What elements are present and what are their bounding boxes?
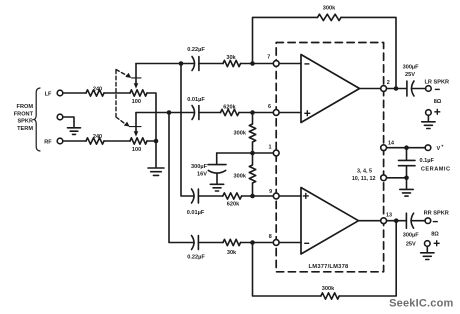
svg-text:8: 8 (269, 234, 272, 240)
pin 8 circle (273, 240, 279, 246)
pin 6 circle (273, 110, 279, 116)
svg-text:240: 240 (93, 134, 102, 140)
resistor 30k (lower) (223, 239, 241, 245)
svg-text:240: 240 (93, 86, 102, 92)
junction amp1 noninverting node (250, 110, 255, 115)
wire RR plus to ground (426, 247, 428, 252)
svg-text:LM377/LM378: LM377/LM378 (309, 264, 349, 270)
svg-text:620k: 620k (227, 202, 240, 208)
capacitor 0.01uF (C4 lower) (192, 189, 199, 203)
node RF input terminal (57, 138, 63, 144)
svg-text:0.22µF: 0.22µF (187, 255, 205, 261)
junction pot grounds (154, 139, 159, 144)
node RR SPKR minus terminal (425, 218, 431, 224)
wire C2 to R620k mid (199, 112, 221, 114)
svg-text:0.22µF: 0.22µF (187, 47, 205, 53)
wire C4 to R620k lower (198, 195, 222, 197)
ground RR speaker (421, 253, 434, 260)
svg-text:30k: 30k (226, 55, 236, 61)
wire node B to C2 (169, 112, 194, 114)
node A junction (LF wiper node) (179, 61, 184, 66)
label minus LR (435, 88, 440, 90)
svg-text:300µF: 300µF (191, 164, 208, 170)
svg-text:100: 100 (132, 147, 141, 153)
pot P1 wiper arrow (135, 64, 137, 85)
svg-text:RF: RF (44, 139, 52, 145)
capacitor 0.22uF (C5 lower) (192, 236, 199, 250)
wire pin 13 to output cap C7 (387, 220, 407, 222)
wire bias node to pin 1 and bypass cap (217, 152, 273, 154)
pin 2 circle (381, 86, 387, 92)
wire RF terminal to R240b (63, 140, 86, 142)
label plus LR (434, 109, 440, 115)
capacitor 300uF 16V (bypass) (208, 153, 226, 173)
junction RR output node (394, 218, 399, 223)
wire LF terminal to R240a (63, 92, 86, 94)
wire ceramic cap to ground (406, 178, 408, 188)
wire pin 14 to V+ terminal (387, 147, 425, 149)
svg-text:300k: 300k (323, 6, 336, 12)
svg-text:13: 13 (386, 212, 392, 218)
svg-text:CERAMIC: CERAMIC (421, 167, 451, 173)
svg-text:16V: 16V (197, 172, 207, 178)
svg-text:25V: 25V (405, 72, 415, 78)
wire R620k to pin 6 (239, 112, 273, 114)
svg-text:300k: 300k (322, 286, 335, 292)
pin 9 circle (273, 193, 279, 199)
ground pots (148, 168, 164, 175)
svg-text:620k: 620k (223, 105, 236, 111)
wire P2 right end to junction (147, 140, 156, 142)
node RR SPKR plus terminal (425, 241, 431, 247)
svg-text:300k: 300k (234, 131, 247, 137)
op-amp U1B plus sign (303, 193, 309, 199)
wire pin 2 to output cap C6 (387, 88, 407, 90)
wire pin 6 to amp1 (279, 112, 301, 114)
resistor 300k (bias lower) vertical (249, 153, 255, 196)
wire C5 to R30k lower (198, 242, 223, 244)
resistor 30k (top) (223, 60, 241, 66)
resistor 620k (lower) (223, 193, 242, 199)
wire amp2 output to pin 13 (359, 220, 381, 222)
gang link dashed (dual pot coupling) (116, 70, 128, 125)
wire pin 8 to amp2 (279, 242, 301, 244)
svg-text:FROM: FROM (17, 104, 34, 110)
junction LR output node (394, 86, 399, 91)
potentiometer 100 (P1 element) (130, 90, 147, 96)
svg-text:1: 1 (269, 145, 272, 151)
wire C7 to RR speaker terminal (411, 220, 425, 222)
svg-text:8Ω: 8Ω (434, 99, 442, 105)
resistor 300k (bottom feedback) (321, 293, 339, 299)
svg-text:LR SPKR: LR SPKR (425, 80, 450, 86)
capacitor 0.22uF (C1 top) (192, 57, 199, 71)
svg-text:0.01µF: 0.01µF (187, 210, 205, 216)
pin 14 circle (381, 145, 387, 151)
svg-text:SPKR: SPKR (17, 119, 33, 125)
label plus RR (434, 240, 440, 246)
svg-text:3, 4, 5: 3, 4, 5 (357, 169, 372, 175)
svg-text:300µF: 300µF (403, 233, 420, 239)
wire R30k to pin 7 (241, 63, 274, 65)
svg-text:6: 6 (268, 104, 271, 110)
node LF input terminal (57, 90, 63, 96)
wire LR plus to ground (427, 116, 429, 121)
wire R30k lower to pin 8 (241, 242, 274, 244)
pin 1 circle (273, 150, 279, 156)
ground bypass (210, 184, 223, 191)
ground LR speaker (422, 122, 435, 129)
node common input terminal (57, 114, 63, 120)
label minus RR (433, 221, 438, 223)
wire C1 to R30k top (199, 63, 223, 65)
op-amp U1A plus sign (304, 110, 310, 116)
svg-text:V: V (437, 146, 441, 152)
svg-text:100: 100 (132, 99, 141, 105)
brace input group (34, 88, 40, 151)
node LR SPKR minus terminal (426, 86, 432, 92)
svg-text:SeekIC.com: SeekIC.com (389, 298, 453, 310)
wire amp1 output to pin 2 (360, 88, 381, 90)
pot P2 wiper arrow (135, 113, 137, 133)
wire R240a to pot P1 (104, 92, 130, 94)
wire R620k lower to pin 9 (242, 195, 273, 197)
pins 3,4,5,10,11,12 circle (381, 175, 387, 181)
op-amp U1B triangle (301, 188, 359, 255)
svg-text:0.01µF: 0.01µF (187, 97, 205, 103)
wire node B down to lower channel (169, 113, 194, 243)
resistor 240 (right front) (86, 138, 104, 144)
svg-text:LF: LF (45, 92, 52, 98)
capacitor 300uF 25V (LR coupling) (407, 81, 414, 96)
svg-text:7: 7 (267, 54, 270, 60)
wire pin 7 to amp1 (279, 63, 301, 65)
junction amp2 inverting node (250, 240, 255, 245)
svg-text:10, 11, 12: 10, 11, 12 (352, 176, 376, 182)
wire P1 right end to ground column (147, 93, 156, 141)
svg-text:+: + (441, 144, 444, 149)
pin 7 circle (273, 61, 279, 67)
svg-text:9: 9 (269, 189, 272, 195)
ground supply bypass (400, 189, 413, 196)
gang wiper tick P2 (130, 126, 142, 128)
gang wiper tick P1 (132, 77, 142, 79)
junction amp1 inverting node (250, 61, 255, 66)
svg-text:2: 2 (387, 80, 390, 86)
wire common terminal to ground (63, 117, 74, 127)
resistor 620k (upper) (221, 109, 239, 115)
junction V+ node (404, 145, 409, 150)
wire feedback2 down and over (253, 221, 397, 296)
junction ground pins node (404, 176, 409, 181)
wire R240b to pot P2 (104, 140, 130, 142)
pin 13 circle (381, 218, 387, 224)
capacitor 0.1uF ceramic (399, 148, 416, 178)
svg-text:FRONT: FRONT (14, 111, 34, 117)
resistor 300k (bias upper) vertical (249, 113, 255, 154)
wire P2 wiper to node B (136, 112, 169, 114)
wire node A to C1 (181, 63, 194, 65)
ground input common (68, 128, 81, 135)
wire feedback1 up and over (253, 17, 397, 88)
svg-text:30k: 30k (227, 250, 237, 256)
wire junction to ground (155, 141, 157, 167)
IC dashed package outline LM377/LM378 (276, 43, 383, 272)
wire node A down to lower channel (181, 64, 194, 197)
svg-text:0.1µF: 0.1µF (420, 158, 435, 164)
node B junction (RF wiper node) (167, 110, 172, 115)
potentiometer 100 (P2 element) (130, 138, 147, 144)
capacitor 300uF 25V (RR coupling) (406, 213, 413, 228)
op-amp U1B minus sign (304, 242, 309, 244)
wire C6 to LR speaker terminal (412, 88, 426, 90)
wire ground pins 3-12 (387, 177, 407, 179)
svg-text:25V: 25V (406, 242, 416, 248)
wire P1 wiper to node A (136, 63, 181, 65)
wire pin 9 to amp2 (279, 195, 301, 197)
wire bypass cap to ground (216, 173, 218, 183)
op-amp U1A minus sign (304, 63, 309, 65)
capacitor 0.01uF (C2 mid) (192, 106, 199, 120)
resistor 300k (top feedback) (318, 14, 342, 20)
svg-text:300µF: 300µF (403, 65, 420, 71)
svg-text:TERM: TERM (17, 126, 33, 132)
resistor 240 (left front) (86, 90, 104, 96)
node LR SPKR plus terminal (426, 110, 432, 116)
op-amp U1A triangle (301, 55, 360, 123)
node V+ terminal (425, 145, 431, 151)
svg-text:8Ω: 8Ω (431, 232, 439, 238)
svg-text:300k: 300k (234, 173, 247, 179)
svg-text:14: 14 (388, 140, 394, 146)
junction amp2 noninverting node (250, 194, 255, 199)
junction bias midpoint node (250, 151, 255, 156)
svg-text:RR SPKR: RR SPKR (424, 211, 449, 217)
